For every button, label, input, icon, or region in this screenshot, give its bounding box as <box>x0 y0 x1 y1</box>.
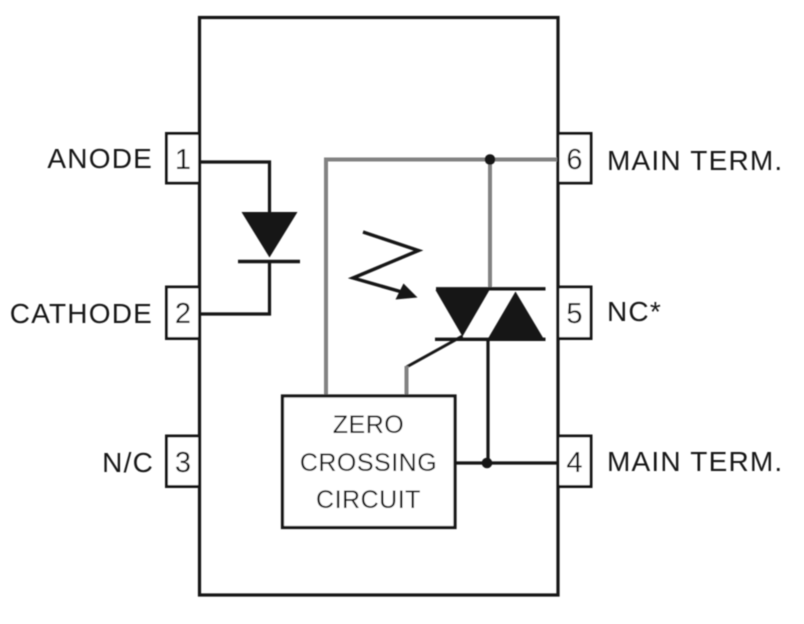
svg-text:5: 5 <box>566 298 582 330</box>
wire gray: rail drop to triac MT2 <box>488 160 492 289</box>
svg-text:CIRCUIT: CIRCUIT <box>316 486 421 514</box>
triac gate lead diagonal <box>407 336 463 367</box>
light arrow from LED to triac <box>353 232 419 292</box>
light arrow head <box>396 284 418 300</box>
svg-text:CATHODE: CATHODE <box>10 298 153 329</box>
pin 3 box <box>167 436 200 487</box>
pin 4 box <box>558 436 591 487</box>
pin 5 box <box>558 287 591 339</box>
wire gray: gate to zero-crossing circuit <box>405 366 409 396</box>
svg-text:MAIN TERM.: MAIN TERM. <box>607 145 783 176</box>
zero crossing circuit block U1 <box>283 396 456 528</box>
svg-text:CROSSING: CROSSING <box>300 449 437 477</box>
svg-text:1: 1 <box>175 144 191 176</box>
LED cathode bar <box>238 260 300 263</box>
triac Q1 top bar (MT2) <box>436 287 546 290</box>
junction node on pin 4 rail <box>482 458 493 469</box>
svg-text:2: 2 <box>175 298 191 330</box>
wire anode: pin 1 to LED <box>200 162 270 213</box>
svg-text:ZERO: ZERO <box>333 411 404 439</box>
wire cathode: LED to pin 2 <box>200 262 270 314</box>
triac right triangle <box>488 292 544 339</box>
LED D1 triangle <box>242 212 298 258</box>
pin 1 box <box>167 134 200 184</box>
junction node on pin 6 rail <box>485 154 496 165</box>
svg-text:N/C: N/C <box>102 447 154 478</box>
wire gray: zero-crossing circuit to pin 6 rail <box>326 160 557 397</box>
pin 2 box <box>167 287 200 339</box>
triac bottom bar (MT1) <box>435 338 546 341</box>
triac left triangle <box>436 290 490 337</box>
svg-text:ANODE: ANODE <box>47 143 153 174</box>
svg-text:4: 4 <box>566 447 582 479</box>
wire: triac MT1 down to pin 4 rail <box>486 340 489 463</box>
IC package outline <box>200 18 559 596</box>
svg-text:NC*: NC* <box>607 296 662 327</box>
svg-text:3: 3 <box>175 447 191 479</box>
svg-text:6: 6 <box>566 144 582 176</box>
pin 6 box <box>558 134 591 184</box>
svg-text:MAIN TERM.: MAIN TERM. <box>607 446 783 477</box>
wire: zero-crossing circuit to pin 4 <box>455 461 558 464</box>
